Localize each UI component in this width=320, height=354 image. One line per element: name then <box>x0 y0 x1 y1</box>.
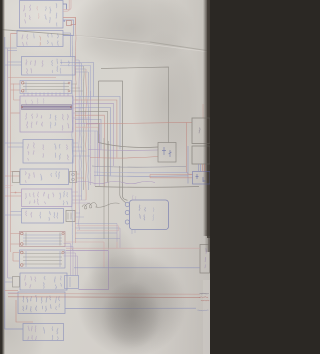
wire RN3 left tap <box>13 253 19 262</box>
op-amp U9 box <box>20 273 67 290</box>
wire right horizontals B <box>77 226 119 231</box>
wire right horizontals C <box>117 224 120 248</box>
wire cascade 7 <box>75 119 101 149</box>
wire dark outer loop <box>101 67 169 143</box>
wire red under U3 <box>8 77 56 79</box>
wire URB bottom stubs <box>132 230 135 235</box>
connector J1 blue box <box>65 276 79 289</box>
wire bus bundle line 7 <box>87 72 90 190</box>
wire dark horiz mid <box>92 166 186 167</box>
resistor network RN3 <box>20 250 66 268</box>
wire +5V rail red 1 <box>8 293 200 296</box>
label rail red text 2 <box>201 299 209 302</box>
wire U10 left tap <box>5 290 18 292</box>
op-amp U4 register box <box>20 93 73 133</box>
wire RN1 left tap <box>11 84 21 90</box>
wire red mid <box>90 157 158 159</box>
wire cascade 4 <box>75 108 111 176</box>
wire bus bundle line 5 <box>82 66 85 190</box>
wire U7 left tap <box>5 193 22 197</box>
wire U9 left tap <box>5 278 13 282</box>
wire left purple rail <box>7 49 9 279</box>
wire U5 left tap <box>5 143 23 147</box>
wire blue step 1 <box>60 63 94 97</box>
wire mid verticals <box>95 131 100 186</box>
capacitor C3 left of U9 <box>13 277 20 288</box>
wire left red rail <box>10 34 12 253</box>
wire red stub above UR1 <box>202 104 204 118</box>
wire U3 left tap <box>5 62 22 65</box>
wire bus bundle line 6 <box>85 69 88 200</box>
crystal X1 loop red <box>63 17 76 24</box>
wire purple mid <box>88 149 158 152</box>
wire right horizontals A <box>75 224 120 239</box>
wire cascade 1 <box>75 97 120 150</box>
U1 right pin bracket <box>63 4 67 10</box>
wire U4 left tap <box>11 112 21 114</box>
op-amp U5 box <box>23 140 73 164</box>
op-amp U11 box <box>23 324 64 341</box>
wire dark horiz 186 <box>95 186 199 189</box>
op-amp U10 DAC box <box>18 292 65 314</box>
wire U4 right stubs <box>73 100 90 118</box>
wire blue long rail <box>74 267 200 269</box>
wire blue mid <box>94 146 188 184</box>
URB pin loops <box>125 202 129 224</box>
URB top label <box>131 195 134 201</box>
LED module URB rounded box <box>130 200 169 230</box>
wire blue mid 2 <box>94 171 188 174</box>
wire cascade 2 <box>75 100 117 158</box>
wire UR2 to UB stubs <box>199 164 201 172</box>
wire U6 right stubs <box>77 174 85 178</box>
resistor network RN2 <box>20 232 66 247</box>
label rail blue text <box>198 310 209 311</box>
wire U7 right stubs <box>72 192 90 203</box>
crystal X1 loop blue <box>63 20 74 36</box>
capacitor C1 beside U6 <box>70 172 77 183</box>
wire purple squiggle <box>75 181 155 184</box>
connector URG range box <box>200 245 210 274</box>
wire GND rail blue <box>65 307 196 309</box>
wire red to UR1 <box>86 122 193 174</box>
wire cascade 6 <box>75 115 104 186</box>
wire cascade 9 <box>75 127 98 166</box>
cast shadow overlay <box>78 253 186 354</box>
wire RN1 right stubs <box>72 84 84 91</box>
capacitor C5 left of U6 <box>13 172 20 183</box>
wire red loop A <box>66 242 104 268</box>
wire U8 left tap <box>5 212 22 216</box>
wire U2 left tap <box>11 33 18 35</box>
wire U8 right stubs <box>75 213 84 217</box>
op-amp U8 box <box>22 209 64 224</box>
resistor network RN1 <box>20 81 72 94</box>
wire red pair to UB <box>150 175 193 178</box>
op-amp U6 box <box>20 169 69 185</box>
op-amp U2 box <box>17 31 63 47</box>
wire bus bundle line 8 <box>89 91 92 185</box>
wire bus bundle line 4 <box>80 63 83 200</box>
wire RN2 left tap <box>11 234 21 245</box>
wire knotted squiggle <box>82 203 120 210</box>
wire +5V rail red 2 <box>8 296 200 299</box>
wire dark loop top <box>99 81 128 200</box>
wire dark loop left <box>99 81 159 147</box>
wire U6 left tap <box>5 172 20 177</box>
wire ladder rungs <box>5 186 13 188</box>
capacitor C2 beside U8 <box>66 211 75 222</box>
op-amp U1 microprocessor box <box>20 1 64 29</box>
wire cascade 3 <box>75 104 114 166</box>
wire U11 red tap <box>16 300 33 322</box>
wire box2 to bundle <box>63 33 72 57</box>
wire mid verticals long <box>104 138 109 250</box>
wire cascade 10 <box>75 131 98 176</box>
divider UM box <box>158 143 176 163</box>
connector UB box <box>193 172 211 185</box>
wire cascade 8 <box>75 123 100 157</box>
op-amp UR2 box <box>192 146 210 164</box>
wire dark drop to URB <box>120 166 126 203</box>
wire U5 right stubs <box>73 143 90 156</box>
op-amp U7 ALU box <box>22 189 73 207</box>
label rail dark text <box>200 292 209 295</box>
op-amp UR1 flipflop box <box>192 118 210 144</box>
op-amp U3 box <box>22 57 76 76</box>
wire blue step 2 <box>60 66 91 101</box>
wire left blue rail <box>5 37 23 329</box>
wire RN1 to U4 red <box>14 84 21 101</box>
wire red pair from top <box>63 0 71 11</box>
label rail red text 1 <box>199 296 208 299</box>
wire U3 right stubs <box>75 60 88 72</box>
wire red long rail <box>66 242 200 248</box>
wire bus bundle line 2 <box>74 17 77 243</box>
wire bus bundle line 3 <box>78 60 81 230</box>
wire cascade 5 <box>75 111 107 182</box>
wire bus bundle line 1 <box>71 36 74 251</box>
wire U2 lower taps <box>5 48 17 51</box>
wire purple loop B <box>66 251 109 290</box>
wire bus fan-in corners <box>64 244 78 276</box>
crystal X1 body <box>67 21 72 26</box>
